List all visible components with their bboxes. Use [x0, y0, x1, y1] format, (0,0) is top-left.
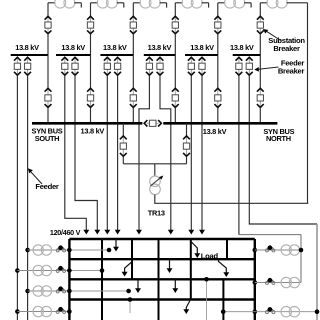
svg-text:Feeder: Feeder — [35, 182, 59, 191]
wire substation breaker 3 to 13.8 kV bus 3 — [132, 34, 134, 55]
gray drop x=130 row4 — [129, 300, 131, 314]
13.8 kV bus 5 — [185, 54, 218, 56]
wire far right edge drop x=317 — [316, 224, 318, 320]
wire transformer T4 to substation breaker 4 — [174, 3, 176, 16]
substation transformer T1 — [48, 0, 81, 8]
svg-text:Breaker: Breaker — [273, 44, 300, 53]
grid vertical x=227 row1 — [226, 239, 228, 259]
left network transformer 4 — [33, 306, 43, 316]
wire right-edge feeder from transformer T6 down right side — [307, 3, 309, 204]
svg-text:13.8 kV: 13.8 kV — [203, 127, 227, 136]
svg-text:Load: Load — [201, 251, 219, 260]
right network protector 1 — [266, 249, 269, 252]
left network row 3 wire — [28, 290, 70, 292]
load arrow row1 cell — [115, 239, 117, 248]
grid vertical x=158.5 full — [158, 239, 160, 320]
grid left edge bar — [68, 239, 70, 320]
13.8 kV bus 2 — [56, 54, 91, 56]
label Feeder Breaker with leader arrow — [254, 59, 304, 76]
wire transformer T5 to substation breaker 5 — [217, 3, 219, 16]
load arrow row1 near Load label — [191, 240, 197, 254]
entry arrow bus5-a — [190, 229, 192, 232]
wire TR13 breaker right to bridge — [186, 156, 188, 164]
feeder wire bus6-a routed toward right spot feed — [238, 75, 240, 234]
feeder breaker 2b — [72, 57, 79, 75]
svg-text:TR13: TR13 — [148, 209, 165, 218]
junction node right feed row3 — [315, 309, 320, 314]
right network row 2 grid node — [253, 280, 258, 285]
right network row 2 wire — [255, 282, 301, 284]
feeder breaker 6a — [236, 57, 243, 75]
13.8 kV bus 3 — [100, 54, 133, 56]
entry arrow bus5-b — [201, 229, 203, 232]
substation transformer T3 — [133, 0, 166, 8]
substation transformer T6 — [260, 0, 307, 8]
left network row 2 wire — [17, 270, 69, 272]
13.8 kV bus 4 — [144, 54, 176, 56]
feeder wire bus3-b — [117, 75, 119, 230]
wire syn-bus breaker 3 to SYN bus — [132, 108, 134, 124]
wire substation breaker 4 to 13.8 kV bus 4 — [174, 34, 176, 55]
SYN BUS SOUTH bar — [32, 122, 142, 125]
svg-text:Breaker: Breaker — [278, 66, 305, 75]
left network row 2 tap node — [15, 268, 20, 273]
substation transformer T5 — [218, 0, 251, 8]
wire syn-bus breaker 6 to SYN bus — [259, 108, 261, 124]
wire SYN BUS NORTH down to TR13 breaker right — [186, 123, 188, 136]
svg-text:NORTH: NORTH — [266, 134, 291, 143]
entry arrow bus4-a — [138, 229, 140, 232]
feeder breaker 5b — [199, 57, 206, 75]
grid vertical x=223.4 rows3-4 — [222, 279, 224, 320]
right network transformer 2 — [281, 277, 291, 287]
junction node row3 inner tap — [221, 309, 226, 314]
junction node row3 main — [126, 289, 131, 294]
wire bus 1 to syn-bus breaker 1 — [47, 55, 49, 88]
feeder breaker 4a — [146, 57, 153, 75]
syn-bus breaker 3 — [130, 88, 137, 107]
load arrow row2 middle — [169, 259, 171, 269]
left network row 1 tap node — [25, 248, 30, 253]
left network row 1 wire — [28, 249, 70, 251]
label SYN BUS NORTH — [263, 127, 294, 143]
label SYN BUS SOUTH — [32, 127, 63, 144]
svg-text:13.8 kV: 13.8 kV — [230, 43, 254, 52]
wire bus 5 to syn-bus breaker 5 — [217, 55, 219, 88]
TR13 bridge wire — [123, 163, 186, 165]
TR13 breaker right — [183, 136, 190, 156]
13.8 kV bus 1 — [11, 54, 48, 56]
left network protector 3 — [56, 290, 59, 293]
wire bus 6 to syn-bus breaker 6 — [259, 55, 261, 88]
syn-bus breaker 1 — [45, 88, 52, 107]
label Feeder with leader arrow — [28, 168, 59, 191]
wire substation breaker 6 to 13.8 kV bus 6 — [259, 34, 261, 55]
secondary main row3 (gray) — [69, 290, 128, 292]
load arrow row4 (bent) — [186, 300, 189, 311]
load arrow row2 right (bent) — [219, 260, 227, 273]
gray drop x=206.5 rows3-4 — [206, 279, 208, 320]
feeder wire bus2-a with jog — [65, 75, 87, 230]
right network row 1 wire — [255, 249, 301, 251]
junction node right feed row1 — [299, 248, 304, 253]
right network row 3 wire — [223, 311, 317, 313]
syn-bus breaker 2 — [87, 88, 94, 107]
wire transformer T1 to substation breaker 1 — [47, 3, 49, 16]
feeder breaker 6b — [246, 57, 253, 75]
syn-bus breaker 4 — [172, 88, 179, 107]
right network protector 2 — [266, 281, 269, 284]
wire syn-bus breaker 4 to SYN bus — [174, 108, 176, 124]
substation breaker 5 — [214, 16, 221, 34]
svg-text:13.8 kV: 13.8 kV — [190, 43, 214, 52]
svg-text:SOUTH: SOUTH — [35, 134, 59, 143]
junction node row2 main — [100, 268, 105, 273]
feeder breaker 1b — [24, 57, 31, 75]
substation breaker 2 — [87, 16, 94, 34]
feeder breaker 2a — [61, 57, 68, 75]
left network protector 2 — [56, 269, 59, 272]
wire TR13 secondary output — [155, 195, 308, 204]
svg-text:13.8 kV: 13.8 kV — [148, 43, 172, 52]
feeder wire bus2-b with jog — [75, 75, 97, 230]
load arrow row3 a — [137, 279, 139, 289]
syn-bus breaker 5 — [214, 88, 221, 107]
left network row 3 grid node — [67, 289, 72, 294]
feeder wire bus1-a (left) — [16, 75, 18, 320]
feeder breaker 4b — [157, 57, 164, 75]
grid row bar 3 — [69, 278, 254, 280]
svg-text:13.8 kV: 13.8 kV — [103, 43, 127, 52]
left network row 4 tap node — [15, 309, 20, 314]
left network protector 1 — [56, 249, 59, 252]
wire bridge to TR13 transformer — [154, 164, 156, 176]
wire substation breaker 5 to 13.8 kV bus 5 — [217, 34, 219, 55]
substation breaker 3 — [130, 16, 137, 34]
left network transformer 2 — [33, 265, 43, 275]
feeder wire bus4-a with jog — [139, 75, 149, 230]
load arrow row2 left (bent) — [125, 260, 132, 272]
substation transformer T4 — [175, 0, 208, 8]
entry arrow bus3-b — [117, 229, 119, 232]
right network transformer 1 — [281, 245, 291, 255]
entry arrow bus4-b — [170, 229, 172, 232]
feeder wire bus1-b (left) — [27, 75, 29, 320]
load arrow row3 b — [174, 279, 176, 289]
feeder breaker 3b — [114, 57, 121, 75]
wire bus 3 to syn-bus breaker 3 — [132, 55, 134, 88]
wire TR13 breaker left to bridge — [122, 156, 124, 164]
wire SYN BUS SOUTH down to TR13 breaker left — [122, 123, 124, 136]
svg-text:13.8 kV: 13.8 kV — [81, 127, 105, 136]
grid vertical x=102 full — [101, 239, 103, 320]
wire transformer T2 to substation breaker 2 — [90, 3, 92, 16]
left network protector 4 — [56, 310, 59, 313]
TR13 breaker left — [120, 136, 127, 156]
grid vertical x=132 rows1-2 — [131, 239, 133, 279]
feeder breaker 5a — [188, 57, 195, 75]
wire syn-bus breaker 5 to SYN bus — [217, 108, 219, 124]
wire bus 2 to syn-bus breaker 2 — [90, 55, 92, 88]
substation breaker 4 — [172, 16, 179, 34]
junction node drop x=206.5 — [204, 277, 209, 282]
13.8 kV bus 6 — [233, 54, 261, 56]
substation breaker 1 — [45, 16, 52, 34]
secondary main row1 (gray) — [69, 249, 109, 251]
left network row 4 grid node — [67, 309, 72, 314]
wire right spot feed drop x=301 — [300, 235, 302, 283]
wire transformer T3 to substation breaker 3 — [132, 3, 134, 16]
grid top bar — [69, 238, 254, 240]
syn-bus breaker 6 — [257, 88, 264, 107]
feeder breaker 3a — [104, 57, 111, 75]
substation breaker 6 — [257, 16, 264, 34]
junction node drop x=130 — [128, 297, 133, 302]
wire syn-bus breaker 1 to SYN bus — [47, 108, 49, 124]
right network row 3 grid node — [253, 309, 258, 314]
SYN BUS NORTH bar — [163, 122, 277, 125]
label Substation Breaker with leader arrow — [263, 29, 305, 53]
feeder wire bus3-a — [106, 75, 108, 230]
feeder wire bus5-b — [201, 75, 203, 230]
left network row 4 wire — [17, 311, 69, 313]
transformer TR13 (regulating, two stacked circles with arrow) — [150, 176, 164, 195]
entry arrow bus2-a — [85, 229, 87, 232]
entry arrow bus3-a — [106, 229, 108, 232]
wire syn-bus breaker 2 to SYN bus — [90, 108, 92, 124]
grid vertical x=190.8 rows1-3 — [190, 239, 192, 300]
wire substation breaker 2 to 13.8 kV bus 2 — [90, 34, 92, 55]
grid right edge bar — [254, 239, 256, 320]
left network row 3 tap node — [25, 289, 30, 294]
right network row 1 grid node — [253, 248, 258, 253]
svg-text:13.8 kV: 13.8 kV — [15, 43, 39, 52]
svg-text:120/460 V: 120/460 V — [50, 228, 81, 237]
left network transformer 1 — [33, 245, 43, 255]
left network row 2 grid node — [67, 268, 72, 273]
right network transformer 3 — [281, 307, 291, 317]
secondary main row2 (gray) — [69, 270, 102, 272]
svg-text:13.8 kV: 13.8 kV — [61, 43, 85, 52]
wire substation breaker 1 to 13.8 kV bus 1 — [47, 34, 49, 55]
grid row bar 2 — [69, 258, 254, 260]
junction node row1 main — [107, 248, 112, 253]
feeder breaker 1a — [14, 57, 21, 75]
left network transformer 3 — [33, 286, 43, 296]
feeder wire bus4-b with jog — [160, 75, 171, 230]
left network row 1 grid node — [67, 248, 72, 253]
tie breaker between SYN BUS SOUTH and NORTH — [144, 120, 161, 126]
wire transformer T6 to substation breaker 6 — [259, 3, 261, 16]
wire bus 4 to syn-bus breaker 4 — [174, 55, 176, 88]
right network protector 3 — [266, 311, 269, 314]
grid row bar 4 — [69, 298, 254, 300]
feeder wire bus6-b routed to far right edge — [249, 75, 317, 224]
entry arrow bus2-b — [96, 229, 98, 232]
substation transformer T2 — [91, 0, 124, 8]
feeder wire bus5-a — [190, 75, 192, 230]
wire routing to right spot feed — [239, 234, 301, 236]
